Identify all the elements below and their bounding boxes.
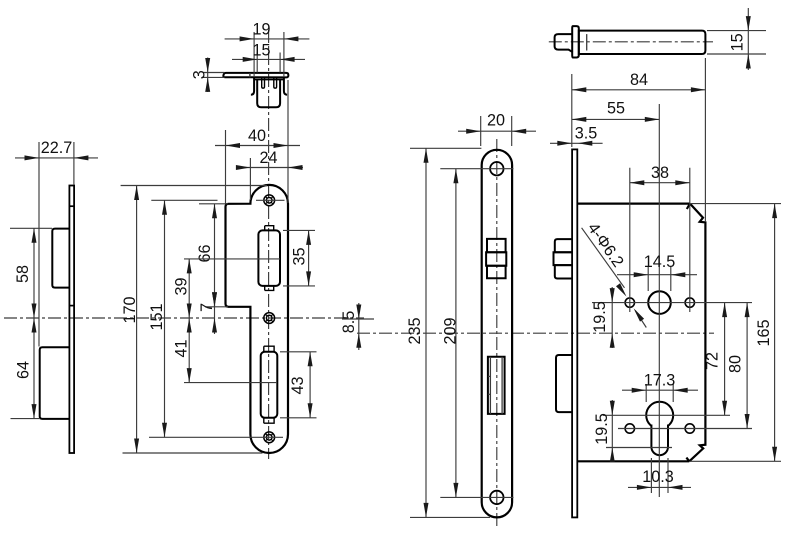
strike plate front view: outline	[226, 185, 289, 453]
dimension 3 (plate thickness)	[203, 72, 225, 74]
latch inner end line	[586, 34, 588, 50]
faceplate deadbolt opening	[488, 357, 505, 414]
strike top view: tab edge tick	[249, 73, 251, 78]
dimension 19 (top view box outer width)	[253, 32, 255, 77]
strike side view: deadbolt dust box	[40, 347, 69, 419]
ext line through right holes (38)	[689, 168, 691, 312]
svg-text:72: 72	[704, 352, 722, 370]
lock case top view body	[579, 31, 706, 54]
crosshair bottom hole / ext for 151-170	[149, 436, 283, 438]
svg-text:3.5: 3.5	[575, 125, 598, 143]
svg-text:66: 66	[196, 244, 214, 262]
fixing hole upper right (phi 6.2)	[685, 298, 694, 307]
strike deadbolt opening	[261, 352, 278, 418]
row line: cylinder centre	[603, 414, 730, 416]
leader 4-phi6.2	[582, 228, 625, 288]
euro profile cylinder hole	[646, 402, 673, 429]
svg-text:43: 43	[289, 376, 307, 394]
dimension 15 (lock case thickness)	[707, 30, 766, 32]
dimension 55 (backset)	[572, 118, 660, 120]
crosshair bottom hole / ext 209	[440, 496, 513, 498]
dimension 72 (follower to cylinder centres)	[724, 303, 726, 416]
svg-text:17.3: 17.3	[644, 372, 676, 390]
latch bolt side protrusion middle	[554, 252, 573, 265]
latch bolt side protrusion upper	[555, 239, 572, 252]
strike top view: right spring prong	[274, 77, 277, 88]
svg-text:58: 58	[14, 265, 32, 283]
fixing hole lower left (phi 6.2)	[625, 424, 634, 433]
cylinder slot	[651, 425, 668, 456]
strike side view: tab joint tick lower	[69, 305, 75, 307]
svg-text:20: 20	[487, 112, 505, 130]
svg-text:22.7: 22.7	[41, 139, 73, 157]
centerline: faceplate vertical axis	[496, 139, 498, 527]
right edge with break corners	[577, 204, 705, 462]
strike plate middle screw hole	[264, 313, 275, 324]
axis line through follower and cylinder	[658, 104, 660, 497]
fixing hole upper left (phi 6.2)	[625, 298, 634, 307]
dimension 39 (latch centre to axis)	[184, 258, 280, 260]
svg-text:19.5: 19.5	[593, 413, 611, 445]
lock case outline with corner break cuts	[577, 203, 690, 205]
dimension 7 (tab bottom to axis)	[214, 292, 216, 334]
faceplate section in top view	[572, 26, 579, 57]
dimension 15 (top view box inner width)	[256, 53, 258, 73]
dimension 3.5 (faceplate thickness)	[550, 142, 603, 144]
strike side view: latch dust box	[52, 229, 69, 288]
strike plate bottom screw hole	[264, 432, 275, 443]
strike top view: box outer wall right	[284, 77, 287, 94]
svg-text:8.5: 8.5	[340, 311, 358, 334]
centerline: lock case axis	[357, 332, 714, 334]
svg-text:64: 64	[15, 361, 33, 379]
dimension 151 (strike hole centers)	[151, 199, 217, 201]
svg-text:40: 40	[248, 127, 266, 145]
svg-text:35: 35	[291, 247, 309, 265]
faceplate front view outline	[482, 150, 512, 518]
dimension 66 (tab height)	[199, 203, 228, 205]
dimension 170 (strike overall height)	[121, 185, 267, 187]
dimension 19.5 lower (cylinder centre to slot line)	[611, 400, 613, 462]
strike latch opening	[258, 230, 280, 286]
deadbolt tick 2	[488, 393, 491, 395]
dimension 41 (axis to deadbolt centre)	[184, 382, 277, 384]
follower hole (handle spindle)	[648, 291, 671, 314]
dimension 10.3 (cylinder slot width)	[650, 458, 652, 493]
dimension 19.5 upper (hole row to axis)	[611, 287, 613, 348]
faceplate latch opening middle section	[486, 252, 506, 266]
deadbolt tick 1	[488, 375, 491, 377]
latch opening bottom ear	[265, 286, 274, 291]
svg-text:24: 24	[259, 149, 277, 167]
faceplate latch opening upper section	[487, 239, 506, 252]
svg-text:15: 15	[729, 33, 747, 51]
faceplate latch opening lower section	[487, 266, 506, 279]
fixing hole lower right (phi 6.2)	[685, 424, 694, 433]
dimension 8.5 (strike axis to lock axis offset)	[358, 303, 360, 350]
dimension 64 (axis to deadbolt box bottom)	[32, 318, 37, 333]
row line: follower and upper holes	[592, 302, 752, 304]
faceplate top screw hole	[490, 162, 503, 175]
strike side view: tab joint tick upper	[69, 205, 75, 207]
latch bolt in top view	[555, 34, 573, 52]
svg-text:15: 15	[252, 42, 270, 60]
svg-text:80: 80	[727, 355, 745, 373]
dimension 43 (deadbolt opening height)	[280, 351, 317, 353]
svg-text:165: 165	[755, 319, 773, 346]
svg-text:7: 7	[198, 303, 216, 312]
strike top view: flat plate section	[223, 73, 288, 78]
deadbolt opening top ear	[264, 346, 274, 352]
svg-text:55: 55	[607, 100, 625, 118]
deadbolt side line left	[489, 357, 491, 414]
dimension 84 (lock case depth)	[571, 74, 573, 147]
svg-text:39: 39	[173, 277, 191, 295]
svg-text:170: 170	[121, 296, 139, 323]
svg-text:235: 235	[406, 317, 424, 344]
row line: lower fixing holes	[618, 428, 752, 430]
deadbolt side protrusion	[556, 355, 572, 412]
dimension 235 (faceplate overall height)	[410, 147, 481, 149]
dimension 38 (fixing hole spacing)	[630, 182, 690, 184]
strike top view: box rim fold line	[254, 79, 284, 81]
svg-text:84: 84	[630, 71, 648, 89]
dimension 22.7 (strike side view depth)	[38, 142, 40, 347]
svg-text:151: 151	[148, 303, 166, 330]
centerline: strike plate vertical axis	[268, 30, 270, 459]
ref line below cylinder slot	[606, 447, 672, 449]
dimension 209 (faceplate hole centers)	[455, 169, 457, 498]
dimension 40 (strike overall width)	[225, 130, 227, 204]
centerline: strike plate axis	[4, 317, 364, 319]
dimension 20 (faceplate width)	[480, 116, 482, 146]
strike top view: latch dust box inner	[257, 80, 280, 108]
deadbolt side line right	[501, 357, 503, 414]
dimension 17.3 (cylinder hole diameter)	[645, 384, 647, 402]
dimension 24 (strike plate body width)	[249, 158, 251, 200]
deadbolt opening bottom ear	[264, 418, 274, 423]
crosshair top hole	[256, 199, 285, 201]
svg-text:19.5: 19.5	[591, 301, 609, 333]
strike plate side view: flat plate	[69, 186, 74, 454]
dimension 35 (latch opening height)	[283, 229, 315, 231]
ref line strike axis at 8.5 dim	[342, 318, 374, 320]
svg-text:14.5: 14.5	[644, 253, 676, 271]
latch bolt side protrusion lower	[555, 265, 572, 278]
ext line through left holes (38)	[629, 168, 631, 312]
faceplate bottom screw hole	[490, 491, 503, 504]
centerline: lock case top view axis	[549, 41, 713, 43]
dimension 165 (lock case height)	[690, 203, 781, 205]
latch opening top ear	[265, 226, 274, 231]
svg-text:10.3: 10.3	[642, 468, 674, 486]
svg-text:3: 3	[191, 70, 209, 79]
strike top view: box outer wall left	[251, 77, 254, 94]
svg-text:38: 38	[651, 164, 669, 182]
svg-text:209: 209	[442, 317, 460, 344]
dimension 58 (latch box top to axis)	[10, 227, 52, 229]
dimension 14.5 (follower hole width)	[647, 266, 649, 291]
faceplate side view (backplate)	[572, 149, 577, 517]
strike plate top screw hole	[264, 195, 275, 206]
dimension 80 (fixing hole rows spacing)	[746, 303, 748, 429]
svg-text:41: 41	[173, 339, 191, 357]
svg-text:19: 19	[252, 21, 270, 39]
crosshair top hole / ext 209	[440, 168, 513, 170]
strike top view: left spring prong	[262, 77, 265, 88]
